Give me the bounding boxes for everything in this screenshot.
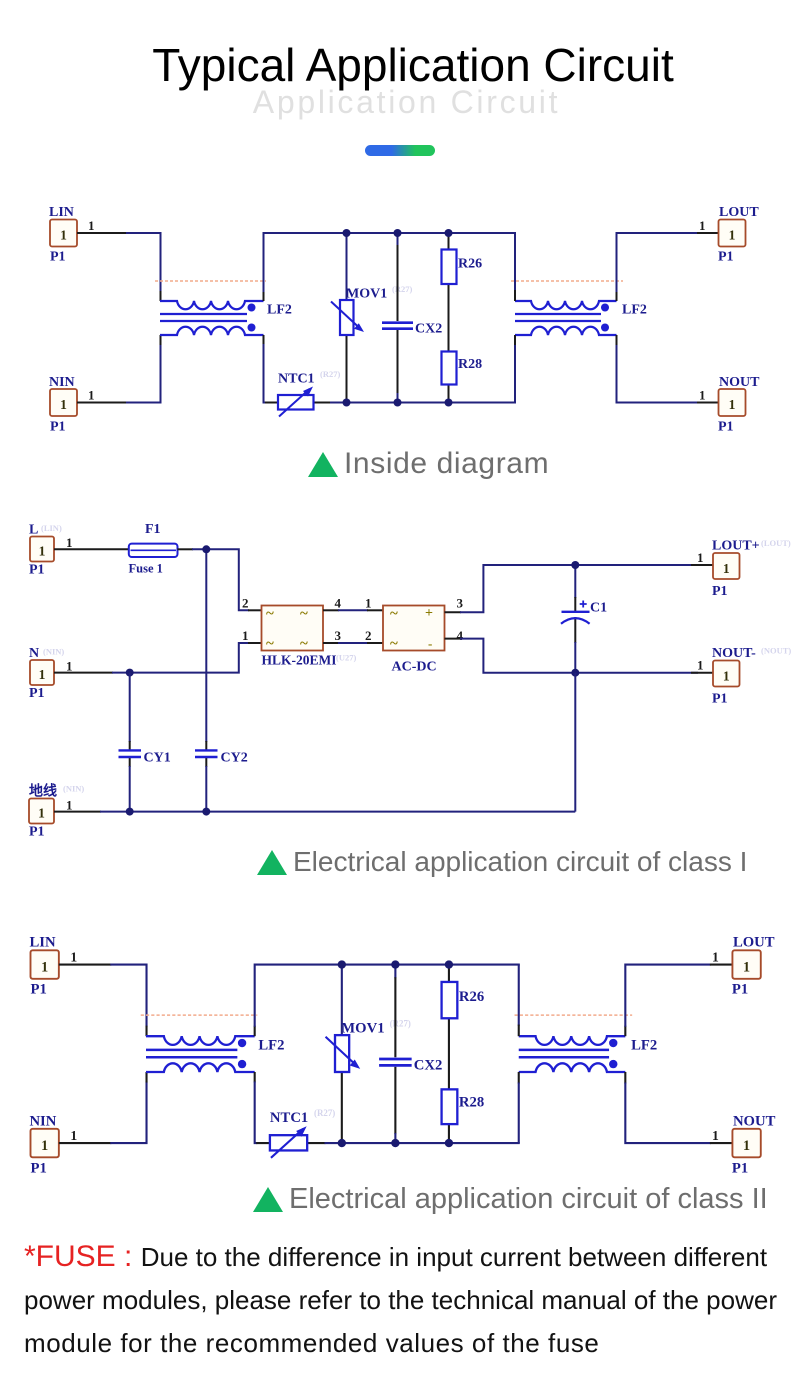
svg-text:P1: P1 bbox=[712, 584, 728, 599]
wire node down to CY2 bbox=[205, 549, 207, 742]
svg-text:P1: P1 bbox=[29, 686, 45, 701]
title bbox=[13, 38, 800, 92]
svg-text:1: 1 bbox=[697, 550, 704, 565]
module HLK-20EMI bbox=[262, 606, 324, 651]
module AC-DC bbox=[383, 606, 445, 651]
svg-text:4: 4 bbox=[335, 596, 342, 611]
wire CY1 vertical bbox=[129, 673, 131, 742]
svg-text:(NIN): (NIN) bbox=[63, 784, 84, 794]
svg-text:~: ~ bbox=[390, 606, 398, 622]
junction dots C1 bbox=[571, 561, 579, 569]
svg-text:P1: P1 bbox=[712, 692, 728, 707]
svg-text:1: 1 bbox=[242, 628, 249, 643]
svg-text:1: 1 bbox=[39, 667, 46, 682]
junction dot F1 node bbox=[202, 545, 210, 553]
svg-text:1: 1 bbox=[38, 806, 45, 821]
svg-text:HLK-20EMI: HLK-20EMI bbox=[262, 653, 337, 668]
svg-text:NOUT-: NOUT- bbox=[712, 646, 756, 661]
svg-text:1: 1 bbox=[66, 798, 73, 813]
svg-text:P1: P1 bbox=[29, 825, 45, 840]
junction dot CY1 tap bbox=[126, 669, 134, 677]
svg-text:~: ~ bbox=[266, 636, 274, 652]
svg-text:3: 3 bbox=[335, 628, 342, 643]
svg-text:1: 1 bbox=[66, 535, 73, 550]
wire fuse to node bbox=[178, 548, 194, 550]
svg-text:(NOUT): (NOUT) bbox=[761, 646, 791, 656]
svg-text:CY1: CY1 bbox=[144, 751, 171, 766]
svg-text:1: 1 bbox=[39, 544, 46, 559]
fuse F1 bbox=[129, 544, 178, 557]
svg-text:Fuse 1: Fuse 1 bbox=[129, 562, 163, 576]
subtitle watermark bbox=[0, 84, 800, 121]
svg-text:1: 1 bbox=[723, 561, 730, 576]
svg-text:1: 1 bbox=[66, 659, 73, 674]
wire earth rail bbox=[54, 811, 101, 813]
wire N to HLK pin1 bbox=[54, 672, 113, 674]
wire L to fuse bbox=[54, 548, 129, 550]
svg-text:~: ~ bbox=[390, 636, 398, 652]
wire AC-DC pin3 to LOUT+ bbox=[445, 611, 462, 613]
svg-text:3: 3 bbox=[457, 596, 464, 611]
wires HLK to AC-DC bbox=[323, 609, 339, 611]
capacitor CY1 bbox=[119, 749, 142, 751]
svg-text:F1: F1 bbox=[145, 522, 161, 537]
svg-text:1: 1 bbox=[697, 658, 704, 673]
svg-text:(U27): (U27) bbox=[336, 653, 356, 663]
svg-text:AC-DC: AC-DC bbox=[392, 660, 437, 675]
connector P1 LOUT+ bbox=[713, 553, 740, 579]
svg-text:L: L bbox=[29, 523, 38, 538]
gradient pill bbox=[365, 145, 435, 156]
svg-text:(LOUT): (LOUT) bbox=[761, 538, 791, 548]
svg-text:~: ~ bbox=[300, 606, 308, 622]
caption 1 bbox=[308, 449, 549, 479]
footnote bbox=[24, 1235, 800, 1365]
svg-text:地线: 地线 bbox=[29, 783, 57, 800]
svg-text:+: + bbox=[425, 606, 433, 621]
svg-text:4: 4 bbox=[457, 628, 464, 643]
svg-text:N: N bbox=[29, 646, 39, 661]
junction dots earth rail bbox=[126, 808, 134, 816]
svg-text:C1: C1 bbox=[590, 601, 607, 616]
svg-text:P1: P1 bbox=[29, 563, 45, 578]
connector P1 N bbox=[30, 660, 54, 685]
svg-text:CY2: CY2 bbox=[221, 751, 248, 766]
svg-text:-: - bbox=[428, 636, 432, 651]
wire AC-DC pin4 to NOUT- bbox=[445, 638, 462, 640]
capacitor C1 bbox=[580, 601, 587, 608]
wire earth to C1 node bbox=[574, 673, 576, 812]
connector P1 L bbox=[30, 537, 54, 562]
capacitor CY2 bbox=[195, 749, 218, 751]
svg-text:1: 1 bbox=[723, 669, 730, 684]
svg-text:(NIN): (NIN) bbox=[43, 647, 64, 657]
connector P1 earth bbox=[29, 799, 54, 824]
svg-text:2: 2 bbox=[365, 628, 372, 643]
capacitor C1 wire bbox=[574, 565, 576, 598]
connector P1 NOUT- bbox=[713, 661, 740, 687]
caption 3 bbox=[253, 1185, 768, 1214]
svg-text:2: 2 bbox=[242, 596, 249, 611]
caption 2 bbox=[257, 848, 747, 876]
svg-text:(LIN): (LIN) bbox=[41, 523, 62, 533]
svg-text:LOUT+: LOUT+ bbox=[712, 539, 760, 554]
svg-text:~: ~ bbox=[266, 606, 274, 622]
svg-text:1: 1 bbox=[365, 596, 372, 611]
svg-text:~: ~ bbox=[300, 636, 308, 652]
